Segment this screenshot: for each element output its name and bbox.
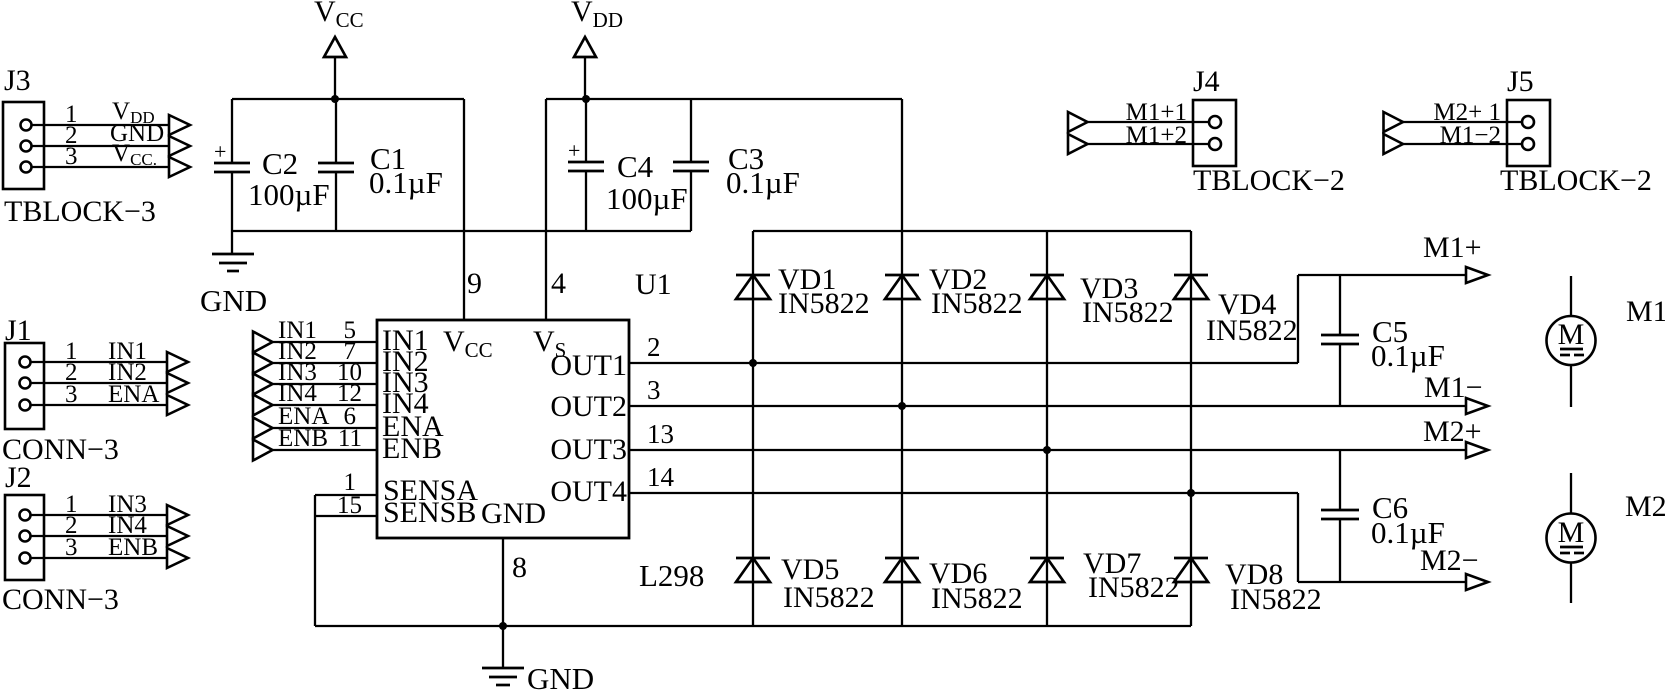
svg-text:IN5822: IN5822: [778, 287, 870, 320]
svg-text:+: +: [214, 139, 226, 164]
op-amp U1 L298 IC box: [377, 268, 704, 593]
capacitor C6: [1321, 450, 1445, 582]
svg-text:U1: U1: [635, 268, 672, 301]
connector J5: [1384, 65, 1652, 197]
diode VD2: [885, 263, 1023, 320]
diode VD1: [736, 263, 870, 320]
diode VD3: [1030, 272, 1174, 329]
capacitor C2: [214, 99, 330, 231]
wire input ENA: [253, 403, 377, 439]
svg-text:15: 15: [337, 492, 362, 519]
wire M2-: [1298, 544, 1488, 590]
wire OUT4 pin 14: [629, 462, 1298, 493]
wire OUT4 riser to M2-: [1297, 493, 1299, 582]
svg-text:4: 4: [551, 267, 566, 300]
node OUT1 junction dot: [749, 359, 757, 367]
diode VD4: [1174, 275, 1298, 347]
svg-text:3: 3: [65, 534, 78, 561]
svg-text:OUT3: OUT3: [550, 433, 627, 466]
svg-text:14: 14: [647, 462, 675, 492]
wire GND bottom rail: [232, 230, 691, 232]
svg-text:IN5822: IN5822: [1206, 314, 1298, 347]
svg-text:IN5822: IN5822: [1088, 571, 1180, 604]
svg-text:OUT2: OUT2: [550, 390, 627, 423]
svg-text:TBLOCK−2: TBLOCK−2: [1193, 164, 1345, 197]
motor M1: [1547, 276, 1665, 407]
wire OUT1 riser to M1+: [1297, 275, 1299, 363]
connector J4: [1068, 65, 1345, 197]
wire M1+: [1298, 231, 1488, 283]
svg-text:0.1µF: 0.1µF: [1371, 338, 1445, 373]
svg-text:SENSB: SENSB: [383, 496, 476, 529]
wire pin 4: [546, 99, 566, 320]
wire pin 9: [464, 99, 482, 320]
diode VD6: [885, 557, 1023, 615]
ground GND (top): [200, 231, 267, 318]
wire bottom ground rail: [315, 625, 1191, 627]
power symbol VCC: [314, 0, 364, 99]
connector J2: [2, 461, 188, 616]
svg-text:M: M: [1558, 516, 1585, 549]
svg-text:GND: GND: [527, 661, 594, 693]
capacitor C1: [318, 99, 443, 231]
wire input IN2: [253, 338, 377, 374]
svg-text:M1: M1: [1626, 295, 1665, 328]
wire SENSA pin 1: [315, 469, 377, 496]
node pin8 ground junction dot: [499, 622, 507, 630]
svg-text:M2+: M2+: [1423, 415, 1482, 448]
diode VD7: [1030, 547, 1180, 604]
connector J1: [2, 314, 188, 466]
svg-text:J4: J4: [1193, 65, 1220, 98]
svg-text:M2: M2: [1625, 490, 1665, 523]
svg-text:8: 8: [512, 551, 527, 584]
svg-text:C4: C4: [617, 149, 654, 184]
svg-text:M1−2: M1−2: [1440, 122, 1501, 149]
power symbol VDD: [571, 0, 623, 99]
svg-text:3: 3: [65, 143, 78, 170]
svg-text:M1+: M1+: [1423, 231, 1482, 264]
svg-text:IN5822: IN5822: [1082, 296, 1174, 329]
svg-text:IN5822: IN5822: [931, 287, 1023, 320]
svg-text:GND: GND: [200, 283, 267, 318]
svg-text:OUT1: OUT1: [550, 349, 627, 382]
svg-text:+: +: [568, 138, 580, 163]
svg-text:11: 11: [338, 425, 362, 452]
svg-text:OUT4: OUT4: [550, 475, 627, 508]
node OUT2 junction dot: [898, 402, 906, 410]
node OUT3 junction dot: [1043, 446, 1051, 454]
svg-text:9: 9: [467, 267, 482, 300]
svg-text:ENB: ENB: [278, 425, 328, 452]
svg-text:3: 3: [647, 375, 661, 405]
svg-text:ENA: ENA: [108, 381, 159, 408]
svg-text:ENB: ENB: [382, 432, 442, 465]
wire VS column: [901, 99, 903, 626]
wire OUT3 pin 13 / M2+: [629, 415, 1488, 458]
svg-text:0.1µF: 0.1µF: [369, 165, 443, 200]
wire input IN3: [253, 359, 377, 395]
svg-text:0.1µF: 0.1µF: [726, 165, 800, 200]
svg-text:GND: GND: [481, 497, 546, 530]
svg-text:13: 13: [647, 419, 674, 449]
wire input IN4: [253, 380, 377, 416]
wire diode column 1: [752, 231, 754, 626]
svg-text:L298: L298: [639, 558, 704, 593]
svg-text:TBLOCK−3: TBLOCK−3: [4, 195, 156, 228]
ground GND (bottom): [482, 661, 594, 693]
connector J3: [3, 64, 190, 228]
svg-text:M: M: [1558, 318, 1585, 351]
svg-text:M1−: M1−: [1424, 371, 1483, 404]
svg-text:100µF: 100µF: [606, 181, 688, 216]
capacitor C4: [568, 99, 688, 231]
svg-text:J5: J5: [1507, 65, 1534, 98]
wire VDD top rail: [546, 98, 902, 100]
wire SENSB pin 15: [315, 492, 377, 519]
node OUT4 junction dot: [1187, 489, 1195, 497]
svg-text:3: 3: [65, 381, 78, 408]
node VCC junction dot: [331, 95, 339, 103]
wire input IN1: [253, 317, 377, 353]
wire diode column 3: [1046, 231, 1048, 626]
wire VCC top rail: [232, 98, 464, 100]
svg-text:J2: J2: [5, 461, 32, 494]
wire pin 8: [503, 538, 527, 668]
wire diode bridge top rail: [753, 230, 1191, 232]
svg-text:CONN−3: CONN−3: [2, 583, 119, 616]
svg-text:C2: C2: [262, 146, 298, 181]
wire input ENB: [253, 425, 377, 461]
svg-text:TBLOCK−2: TBLOCK−2: [1500, 164, 1652, 197]
capacitor C3: [673, 99, 800, 231]
motor M2: [1547, 473, 1665, 603]
svg-text:ENB: ENB: [108, 534, 158, 561]
diode VD5: [736, 553, 875, 614]
svg-text:M1+2: M1+2: [1126, 122, 1187, 149]
svg-text:2: 2: [647, 332, 661, 362]
wire diode column 4: [1190, 231, 1192, 626]
wire OUT1 pin 2: [629, 332, 1298, 363]
svg-text:IN5822: IN5822: [931, 582, 1023, 615]
svg-text:100µF: 100µF: [248, 177, 330, 212]
capacitor C5: [1321, 275, 1445, 406]
svg-text:0.1µF: 0.1µF: [1371, 515, 1445, 550]
svg-text:IN5822: IN5822: [783, 581, 875, 614]
diode VD8: [1174, 558, 1322, 616]
wire sense to ground: [314, 495, 316, 626]
node VDD junction dot: [582, 95, 590, 103]
svg-text:IN5822: IN5822: [1230, 583, 1322, 616]
svg-text:J3: J3: [4, 64, 31, 97]
wire OUT2 pin 3 / M1-: [629, 371, 1488, 414]
